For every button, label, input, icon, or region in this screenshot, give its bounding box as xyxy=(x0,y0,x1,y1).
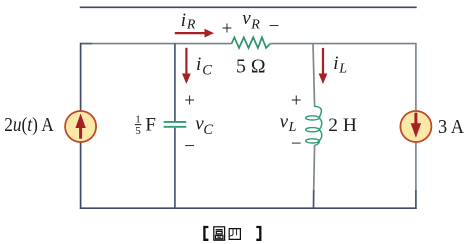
svg-text:−: − xyxy=(184,136,195,157)
svg-text:L: L xyxy=(338,62,347,77)
svg-text:i: i xyxy=(196,54,201,75)
svg-text:+: + xyxy=(222,18,233,39)
svg-text:C: C xyxy=(202,62,212,78)
svg-text:3 A: 3 A xyxy=(438,117,464,138)
svg-text:2u(t) A: 2u(t) A xyxy=(4,114,54,136)
svg-text:R: R xyxy=(186,18,196,33)
svg-text:R: R xyxy=(250,18,260,33)
svg-text:v: v xyxy=(242,8,251,29)
svg-text:F: F xyxy=(145,114,156,135)
svg-text:−: − xyxy=(269,16,280,37)
svg-text:5 Ω: 5 Ω xyxy=(236,56,266,77)
svg-text:+: + xyxy=(291,90,302,111)
svg-text:i: i xyxy=(333,53,338,74)
svg-text:1: 1 xyxy=(135,114,141,126)
svg-text:i: i xyxy=(181,10,186,31)
svg-text:+: + xyxy=(184,91,195,112)
svg-text:v: v xyxy=(280,112,289,133)
svg-text:C: C xyxy=(203,122,213,138)
svg-text:2 H: 2 H xyxy=(328,115,357,136)
svg-text:−: − xyxy=(291,133,302,154)
svg-text:5: 5 xyxy=(135,125,141,137)
